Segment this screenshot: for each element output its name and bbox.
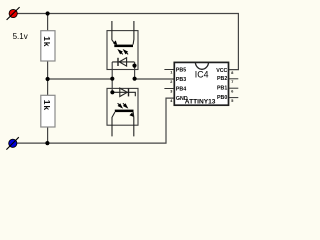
pin stub PB1 (6) (229, 87, 239, 89)
resistor R2 1k (41, 95, 55, 127)
svg-text:VCC: VCC (216, 68, 227, 74)
pin stub PB4 (3) (164, 88, 174, 90)
LED D2 (points right) (112, 88, 135, 96)
svg-text:PB0: PB0 (217, 95, 227, 101)
wire top rail to VCC (17, 14, 238, 70)
pin labels left (176, 68, 188, 103)
svg-text:PB2: PB2 (217, 76, 227, 82)
optocoupler U2 box (107, 88, 138, 125)
junction node middle (46, 77, 50, 81)
transistor Q1 (photo, top) (112, 21, 134, 47)
wire R1 bottom to node (47, 61, 49, 95)
svg-text:4: 4 (170, 99, 173, 103)
pin stub PB5 (1) (164, 69, 174, 71)
svg-text:1k: 1k (42, 36, 52, 47)
junction node A top (46, 11, 50, 15)
transistor Q2 (photo, bottom) (112, 110, 134, 137)
svg-text:IC4: IC4 (195, 69, 209, 79)
junction node bottom (45, 141, 49, 145)
junction LED2 anode (110, 90, 114, 94)
light arrows U1 (119, 50, 129, 54)
junction LED left mid (110, 77, 114, 81)
wire middle left (48, 78, 113, 80)
svg-text:PB5: PB5 (176, 68, 186, 74)
wire R1 top drop (47, 14, 49, 31)
connector blue (6, 137, 18, 149)
optocoupler U1 box (107, 31, 138, 70)
svg-text:3: 3 (170, 90, 172, 94)
pin stub PB0 (5) (229, 97, 239, 99)
svg-text:1k: 1k (42, 100, 52, 111)
junction LED right mid (133, 77, 137, 81)
IC4 ATTINY13 body (174, 62, 228, 105)
wire LED left vertical (111, 62, 113, 92)
wire middle right to PB3 (135, 78, 174, 80)
svg-text:PB3: PB3 (176, 77, 186, 83)
svg-text:7: 7 (231, 80, 233, 84)
pin stub PB2 (7) (229, 78, 239, 80)
wire bottom rail to GND (17, 98, 174, 143)
light arrows U2 (118, 103, 128, 107)
pin labels right (216, 68, 227, 101)
junction LED1 cathode (132, 64, 136, 68)
resistor R1 1k (41, 31, 55, 61)
svg-text:2: 2 (170, 80, 172, 84)
svg-text:ATTINY13: ATTINY13 (185, 98, 216, 105)
svg-text:PB1: PB1 (217, 86, 227, 92)
svg-text:GND: GND (176, 96, 188, 102)
svg-text:1: 1 (170, 71, 172, 75)
svg-text:8: 8 (231, 71, 233, 75)
wire R2 bottom drop (47, 127, 49, 143)
svg-text:PB4: PB4 (176, 87, 186, 93)
wire LED right vertical (134, 62, 136, 79)
svg-text:5: 5 (231, 99, 233, 103)
LED D1 (points left) (112, 58, 134, 66)
svg-text:5.1v: 5.1v (13, 32, 28, 41)
connector red 5.1v (7, 7, 20, 20)
svg-text:6: 6 (231, 90, 233, 94)
pin numbers (170, 71, 233, 104)
